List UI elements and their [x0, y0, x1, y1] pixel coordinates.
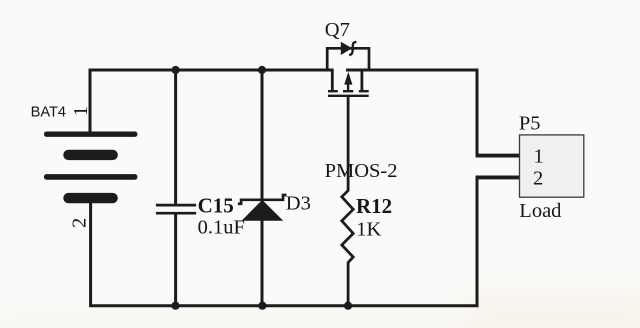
svg-text:C15: C15 — [198, 193, 234, 217]
svg-text:P5: P5 — [519, 113, 541, 135]
transistor Q7 channel bar middle — [343, 90, 353, 92]
diode D3 zener cathode bar — [238, 195, 287, 204]
wire top rail right (transistor drain to P5 pin 1) — [346, 70, 477, 156]
svg-text:D3: D3 — [286, 193, 311, 215]
svg-text:R12: R12 — [356, 194, 392, 218]
battery BAT4 plate 4 (short thick) — [63, 193, 118, 203]
wire bottom rail (battery negative to P5 pin 2) — [91, 177, 477, 305]
capacitor C15 plate bottom — [156, 212, 196, 215]
transistor Q7 body diode triangle — [341, 42, 352, 55]
svg-text:PMOS-2: PMOS-2 — [325, 160, 398, 182]
svg-text:1: 1 — [534, 146, 544, 168]
svg-text:0.1uF: 0.1uF — [198, 216, 245, 238]
transistor Q7 bulk arrow stem — [347, 84, 349, 91]
battery BAT4 plate 3 (long) — [44, 174, 137, 180]
capacitor C15 plate top — [156, 204, 196, 207]
wire P5 pin 1 stub — [476, 154, 520, 158]
wire C15 branch top — [174, 69, 177, 205]
svg-text:Load: Load — [519, 200, 561, 222]
wire P5 pin 2 stub — [476, 175, 520, 179]
transistor Q7 drain leg — [360, 69, 363, 91]
svg-text:Q7: Q7 — [325, 19, 350, 41]
battery BAT4 plate 2 (short thick) — [63, 150, 118, 160]
node junction dot top C15 — [172, 66, 180, 74]
connector P5 box — [520, 135, 584, 197]
wire C15 branch bottom — [174, 214, 177, 308]
transistor Q7 body diode loop — [327, 48, 369, 70]
svg-text:BAT4: BAT4 — [31, 105, 66, 121]
wire D3 branch bottom — [261, 219, 264, 307]
diode D3 triangle — [242, 200, 284, 221]
transistor Q7 source leg — [331, 69, 334, 91]
svg-text:2: 2 — [533, 168, 543, 190]
wire D3 branch top — [261, 69, 264, 201]
transistor Q7 body diode cathode curve — [349, 42, 356, 56]
node junction dot bottom C15 — [171, 302, 179, 310]
wire gate lead and resistor R12 zigzag — [342, 97, 353, 307]
node junction dot top D3 — [258, 66, 266, 74]
transistor Q7 bulk arrow head — [344, 72, 352, 85]
wire top rail left (battery to transistor source) — [90, 70, 332, 134]
svg-text:1: 1 — [70, 106, 92, 116]
node junction dot bottom D3 — [258, 302, 266, 310]
transistor Q7 channel bar right — [359, 90, 369, 92]
battery BAT4 plate 1 (long) — [44, 132, 137, 137]
svg-text:2: 2 — [69, 218, 91, 228]
svg-text:1K: 1K — [356, 218, 381, 240]
transistor Q7 channel bar left — [328, 90, 338, 92]
node junction dot bottom R12 — [344, 302, 352, 310]
transistor Q7 gate plate — [328, 95, 369, 97]
